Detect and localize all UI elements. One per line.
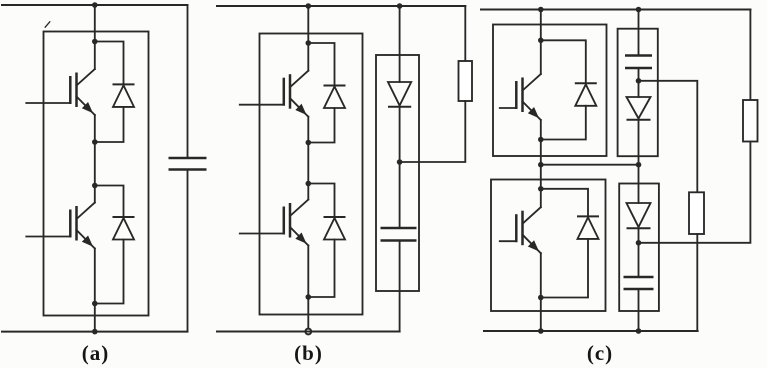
wire: (b) resistor branch from top bus (464, 6, 466, 61)
wire: (b) emitter drop to bottom bus (307, 297, 309, 332)
IGBT V1 upper (c) (500, 74, 541, 120)
junction: (c) lower emitter node (538, 295, 544, 301)
wire: (c) bottom DC bus (484, 330, 698, 332)
snubber box (c) lower (619, 184, 659, 312)
wire: (a) bottom DC bus (2, 331, 188, 333)
label (a) (82, 341, 110, 365)
snubber box (b) (376, 55, 419, 291)
wire: (c) upper diode cathode link (541, 40, 586, 83)
diode VD4 snubber lower (c) (627, 203, 651, 228)
module box (b) IGBT half-bridge (260, 34, 363, 315)
diode VD2 antiparallel lower (b) (324, 217, 346, 240)
junction: (c) lower collector node (538, 186, 544, 192)
diode VD2 antiparallel lower (c) (577, 216, 599, 239)
junction: (b) upper emitter node (306, 140, 312, 146)
junction: (a) lower emitter node (92, 301, 98, 307)
junction: (b) top bus / snubber (397, 3, 403, 9)
module box (c) upper IGBT (493, 25, 607, 157)
junction: (c) upper snubber node (636, 78, 642, 84)
wire: (b) V1 collector lead (307, 43, 309, 71)
wire: (c) collector drop from top bus (540, 10, 542, 41)
wire: (c) upper snubber node to resistor R1 (639, 81, 698, 193)
junction: (a) upper collector node (92, 39, 98, 45)
wire: (a) emitter drop to bottom bus (94, 304, 96, 332)
diode VD snubber (b) (388, 82, 411, 107)
wire: (c) lower snubber top lead (638, 165, 640, 203)
wire: (a) lower diode anode link (95, 240, 124, 304)
junction: (c) midpoint rail right (636, 162, 642, 168)
wire: (c) V2 collector lead (540, 189, 542, 207)
capacitor C snubber (b) (381, 228, 417, 241)
junction: (a) top bus / collector (92, 2, 98, 8)
wire: (b) collector drop from top bus (307, 6, 309, 43)
wire: (a) upper diode anode link (95, 107, 124, 142)
module box (a) IGBT half-bridge (44, 32, 149, 316)
wire: (a) V2 collector lead (94, 186, 96, 203)
junction: (a) upper emitter node (92, 139, 98, 145)
capacitor C DC-link (a) (169, 158, 207, 170)
diode VD1 antiparallel upper (c) (575, 83, 597, 106)
resistor R snubber (b) (459, 61, 473, 101)
wire: (b) snubber top lead (399, 6, 401, 82)
wire: (c) upper diode anode link (541, 106, 586, 140)
junction: (b) snubber mid node (397, 159, 403, 165)
wire: (b) V1 emitter lead (307, 117, 309, 143)
label (b) (294, 341, 323, 365)
wire: (b) V2 collector lead (307, 184, 309, 200)
wire: (c) V1 collector lead (540, 40, 542, 74)
wire: (c) upper emitter drop (540, 140, 542, 165)
wire: (b) upper diode cathode link (308, 43, 334, 86)
junction: (a) bottom bus (92, 329, 98, 335)
wire: (c) upper snubber bottom lead (638, 120, 640, 165)
wire: (a) upper diode cathode link (95, 42, 124, 85)
capacitor C2 snubber lower (c) (624, 277, 654, 289)
wire: (b) midpoint link (307, 143, 309, 184)
wire: (b) snubber diode to node (399, 107, 401, 162)
module box (c) lower IGBT (491, 180, 606, 312)
wire: (c) R2 bottom to lower snubber node (639, 142, 751, 243)
wire: (a) DC-link branch upper (187, 5, 189, 158)
wire: (c) lower snubber diode to node (638, 228, 640, 243)
junction: (a) lower collector node (92, 183, 98, 189)
wire: (c) lower collector drop (540, 165, 542, 189)
junction: (b) top bus / collector (306, 3, 312, 9)
wire: (a) V2 emitter lead (94, 249, 96, 304)
svg-text:(a): (a) (82, 341, 110, 365)
IGBT V2 lower (c) (500, 207, 541, 253)
IGBT V1 upper (a) (26, 69, 95, 115)
wire: (b) snubber bottom lead (399, 241, 401, 332)
wire: (c) midpoint rail (541, 164, 639, 166)
wire: (c) upper snubber node to diode (638, 81, 640, 97)
wire: (c) V1 emitter lead (540, 120, 542, 140)
wire: (c) lower snubber bottom lead (638, 289, 640, 331)
junction: (b) lower collector node (306, 181, 312, 187)
IGBT V2 lower (a) (26, 203, 95, 249)
wire: (a) midpoint link (94, 142, 96, 186)
wire: (b) bottom DC bus (217, 331, 400, 333)
wire: (b) resistor to snubber node (400, 101, 466, 162)
capacitor C1 snubber upper (c) (625, 56, 652, 69)
wire: (a) lower diode cathode link (95, 186, 124, 218)
wire: (b) lower diode anode link (308, 240, 334, 298)
junction: (b) upper collector node (306, 40, 312, 46)
wire: (c) upper snubber top lead (638, 10, 640, 56)
wire: (b) upper diode anode link (308, 108, 334, 143)
wire: (b) top DC bus (217, 5, 465, 7)
wire: (c) V2 emitter lead (540, 253, 542, 297)
svg-text:(c): (c) (587, 341, 613, 365)
wire: (c) lower diode anode link (541, 239, 588, 298)
junction: (c) lower snubber node (636, 240, 642, 246)
wire: (b) lower diode cathode link (308, 184, 334, 218)
wire: (c) top DC bus (481, 9, 750, 11)
IGBT V1 upper (b) (240, 71, 308, 117)
resistor R2 right (c) (743, 100, 758, 142)
label (c) (587, 341, 613, 365)
junction: (c) bottom bus / emitter (538, 328, 544, 334)
wire: (a) DC-link branch lower (187, 170, 189, 332)
diode VD2 antiparallel lower (a) (113, 217, 135, 240)
wire: (c) R1 bottom lead to bottom bus (696, 234, 698, 331)
junction: (b) lower emitter node (306, 294, 312, 300)
IGBT V2 lower (b) (240, 200, 308, 246)
junction: (c) top bus / collector (538, 7, 544, 13)
diode VD1 antiparallel upper (a) (113, 84, 135, 107)
wire: (c) upper snubber cap to node (638, 68, 640, 81)
resistor R1 mid (c) (689, 192, 704, 234)
stray scan tick near (a) box corner (45, 22, 50, 27)
diode VD3 snubber upper (c) (627, 97, 651, 120)
wire: (c) emitter drop to bottom bus (540, 298, 542, 332)
junction: (c) bottom bus / snubber (636, 328, 642, 334)
svg-text:(b): (b) (294, 341, 323, 365)
junction: (c) top bus / snubber (636, 7, 642, 13)
junction: (c) upper collector node (538, 38, 544, 44)
junction: (c) upper emitter node (538, 137, 544, 143)
wire: (c) right branch from top bus (749, 10, 751, 101)
wire: (a) top DC bus (2, 4, 188, 6)
wire: (c) lower diode cathode link (541, 189, 588, 217)
junction: (c) midpoint rail left (538, 162, 544, 168)
diode VD1 antiparallel upper (b) (324, 86, 346, 109)
snubber box (c) upper (618, 29, 658, 157)
wire: (a) V1 emitter lead (94, 115, 96, 142)
wire: (c) lower snubber node to capacitor (638, 243, 640, 277)
wire: (a) V1 collector lead (94, 42, 96, 70)
wire: (b) V2 emitter lead (307, 246, 309, 298)
terminal: (b) midpoint on bottom bus (305, 329, 311, 335)
wire: (a) collector drop from top bus (94, 5, 96, 42)
wire: (b) snubber node to capacitor (399, 162, 401, 228)
